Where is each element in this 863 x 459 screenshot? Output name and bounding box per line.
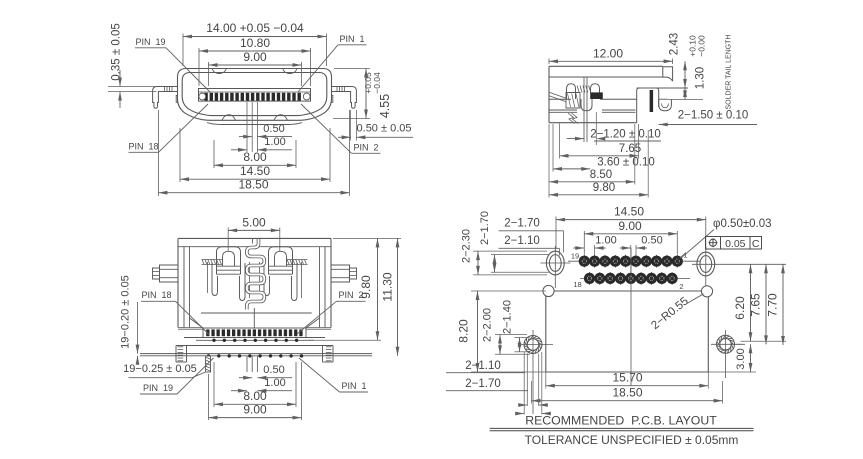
label PIN 19 with leader (front) (135, 37, 210, 92)
pcb: dimension 6.20 (rotated) (733, 264, 786, 341)
front view: contact tongue with 19-pin comb (199, 89, 311, 102)
dimension 2-1.50 +-0.10 (solder foot width) (659, 110, 757, 127)
dimension 10.80 (front tongue width) (199, 36, 311, 86)
svg-text:SOLDER TAIL LENGTH: SOLDER TAIL LENGTH (726, 35, 733, 110)
label PIN 1 with leader (front) (298, 34, 367, 92)
top view: left ear (153, 265, 179, 282)
front view: right mounting leg (332, 87, 357, 109)
svg-text:9.00: 9.00 (243, 50, 267, 64)
front view: bottom flange lip (207, 123, 302, 125)
label PIN 1 with leader (top view) (299, 358, 368, 392)
dimension 9.00 (front pin row span) (209, 50, 302, 86)
dimension 1.00 (top view pin pitch) (231, 377, 292, 393)
svg-text:3.00: 3.00 (735, 348, 747, 369)
dimension 9.00 (top view) (209, 362, 302, 420)
pcb: callout 2-1.70 (oval outer) (499, 218, 564, 253)
svg-text:2−2.30: 2−2.30 (461, 229, 473, 263)
top view: lower body narrowing (190, 313, 320, 328)
pcb: dimension 14.50 (oval slot spacing) (556, 205, 706, 251)
top view: upper pin tail row (9 dots) (196, 339, 314, 342)
dimension 12.00 (side body length) (549, 47, 673, 65)
side view: centre contact pin (584, 77, 587, 142)
svg-text:19: 19 (571, 252, 579, 261)
pcb: lower-right mounting pad (711, 330, 745, 378)
side view: hatched grip between posts (577, 86, 591, 93)
front view: top dimple right (283, 69, 297, 74)
svg-text:2−1.10: 2−1.10 (465, 360, 501, 372)
svg-text:14.00 +0.05 −0.04: 14.00 +0.05 −0.04 (206, 21, 304, 35)
side view: front insulator block with hatch (566, 93, 580, 109)
side view: dark contact band (591, 92, 603, 99)
front view: side lock tab right (331, 96, 333, 103)
top view: left latch spring (208, 247, 250, 301)
dimension 5.00 (latch spacing) (228, 216, 280, 252)
svg-text:8.50: 8.50 (590, 169, 612, 181)
pcb: dimension 2-1.40 (rotated) (502, 300, 531, 352)
svg-text:C: C (752, 238, 760, 250)
dimension 9.80 (side) (549, 124, 648, 198)
svg-text:4.55: 4.55 (378, 94, 392, 118)
title TOLERANCE UNSPECIFIED +-0.05mm (525, 433, 739, 447)
front view: top dimple left (212, 69, 226, 74)
svg-text:0.50: 0.50 (263, 123, 284, 135)
front view: side lock tab left (176, 96, 178, 103)
title separator rule (490, 428, 754, 430)
svg-text:14.50: 14.50 (240, 164, 270, 178)
svg-text:2.43: 2.43 (669, 33, 681, 55)
svg-text:1.00: 1.00 (264, 136, 285, 148)
svg-text:8.00: 8.00 (243, 389, 267, 403)
pcb: callout 2-1.10 (oval inner) (499, 235, 560, 256)
svg-text:2: 2 (679, 282, 683, 291)
dimension 0.50 +-0.05 (right leg width) (338, 110, 413, 141)
pcb: dimension 7.70 (rotated) (766, 264, 785, 345)
top view: front flange band (176, 338, 333, 363)
label PIN 2 with leader (front) (301, 104, 381, 153)
svg-text:14.50: 14.50 (614, 205, 644, 219)
svg-text:18.50: 18.50 (612, 386, 642, 400)
top view: centre meander contact (247, 239, 265, 329)
pcb: top pad row (pins 19..1) (568, 255, 700, 268)
svg-text:φ0.50±0.03: φ0.50±0.03 (713, 218, 772, 230)
dimension 19-0.25 +-0.05 (pin tail width) (123, 363, 205, 378)
top view: left hatched comb edge (202, 260, 223, 265)
svg-text:PIN 19: PIN 19 (135, 37, 165, 47)
svg-text:5.00: 5.00 (242, 216, 266, 230)
top view: front pin comb (203, 328, 306, 338)
svg-text:0.50: 0.50 (263, 364, 284, 376)
pcb: centre line (630, 248, 632, 386)
pcb: callout 2-R0.55 (649, 294, 703, 332)
svg-text:1.30: 1.30 (695, 67, 707, 89)
top view: centre pin tails (247, 356, 257, 372)
dimension 14.50 (front flange width) (180, 128, 330, 182)
dimension 18.50 (front overall width) (158, 110, 349, 196)
svg-text:9.00: 9.00 (243, 403, 267, 417)
svg-text:2−1.10: 2−1.10 (504, 235, 540, 247)
svg-text:PIN 18: PIN 18 (128, 142, 158, 152)
svg-text:9.80: 9.80 (593, 182, 615, 194)
pcb: position tolerance frame 0.05 C (706, 237, 762, 250)
svg-text:10.80: 10.80 (240, 36, 270, 50)
dimension 14.00 +0.05 -0.04 (front shell width) (183, 21, 327, 66)
dimension 2.43 (side, rotated) (669, 33, 687, 88)
svg-text:18.50: 18.50 (238, 178, 268, 192)
svg-text:PIN 19: PIN 19 (143, 383, 173, 393)
pcb: hole diameter callout φ0.50+-0.03 (681, 218, 772, 259)
dimension 11.30 (top view, rotated) (381, 238, 402, 355)
svg-text:−0.04: −0.04 (372, 72, 382, 94)
side view: contact bend (U shape) (581, 99, 592, 111)
dimension 0.35 +-0.05 (left leg thickness, rotated) (108, 23, 157, 108)
svg-text:11.30: 11.30 (381, 272, 395, 301)
svg-text:7.65: 7.65 (749, 293, 763, 317)
svg-text:−0.00: −0.00 (697, 35, 707, 57)
front view: inner shell profile (182, 73, 327, 116)
svg-text:0.50 ± 0.05: 0.50 ± 0.05 (357, 123, 412, 135)
svg-text:3.60 ± 0.10: 3.60 ± 0.10 (597, 157, 654, 169)
label PIN 19 with leader (top view) (140, 358, 214, 394)
title RECOMMENDED P.C.B. LAYOUT (525, 414, 717, 428)
label PIN 18 with leader (front) (128, 104, 208, 152)
side view: through-board mounting lug (637, 88, 659, 123)
svg-text:0.35 ± 0.05: 0.35 ± 0.05 (111, 23, 123, 80)
front view: outer shell profile (178, 69, 332, 121)
pcb: right oval slot (692, 246, 786, 290)
svg-text:2−1.70: 2−1.70 (465, 378, 501, 390)
dimension 3.60 +-0.10 (side) (553, 124, 655, 172)
svg-text:1.00: 1.00 (264, 377, 285, 389)
pcb: dimension 2-1.70 left (rotated) (479, 211, 549, 272)
svg-text:2−1.40: 2−1.40 (502, 300, 514, 334)
top view: lower pin tail row (10 dots) (207, 354, 303, 357)
dimension 8.00 (top view) (214, 362, 296, 407)
pcb: corner relief hole left (R0.55) (543, 285, 554, 296)
top view: right ear (331, 265, 357, 282)
top view: body outline (178, 238, 331, 329)
front view: bottom bump right (274, 115, 288, 121)
svg-text:9.00: 9.00 (618, 219, 642, 233)
dimension 9.80 (top view, rotated) (308, 238, 381, 340)
svg-text:15.70: 15.70 (612, 371, 642, 385)
svg-text:PIN 2: PIN 2 (353, 143, 378, 153)
svg-text:PIN 18: PIN 18 (141, 290, 171, 300)
front view: pin centre extension lines (247, 102, 257, 152)
top view: right latch spring (260, 247, 302, 301)
dimension 8.50 (side) (549, 124, 635, 185)
svg-text:12.00: 12.00 (593, 47, 623, 61)
side view: break lines (zigzag) (568, 113, 578, 124)
side view: solder tab pennant (663, 67, 673, 81)
side view: solder foot (659, 99, 672, 111)
pcb: dimension 2-2.00 (rotated) (482, 308, 531, 354)
pcb: dimension 15.70 (546, 371, 709, 389)
pcb: dimension 7.65 (rotated) (734, 264, 768, 344)
svg-text:2−1.50 ± 0.10: 2−1.50 ± 0.10 (678, 110, 749, 122)
pcb: dimension 0.50 (row offset) (620, 235, 663, 273)
dimension 0.50 (top view pin offset) (239, 364, 292, 380)
svg-text:RECOMMENDED P.C.B. LAYOUT: RECOMMENDED P.C.B. LAYOUT (525, 414, 717, 428)
pcb: dimension 3.00 (rotated) (708, 344, 756, 372)
pcb: pad row labels (571, 251, 688, 292)
svg-text:8.00: 8.00 (243, 150, 267, 164)
svg-text:19−0.25 ± 0.05: 19−0.25 ± 0.05 (123, 363, 197, 375)
svg-text:PIN 1: PIN 1 (339, 34, 364, 44)
pcb: callout 2-1.10 (pad hole) (446, 360, 525, 373)
pcb: dimension 18.50 (532, 381, 723, 404)
pcb: dimension 2-2.30 (rotated) (461, 229, 548, 275)
svg-text:2−1.70: 2−1.70 (479, 211, 491, 245)
svg-text:7.65: 7.65 (619, 143, 641, 155)
svg-text:0.50: 0.50 (641, 235, 662, 247)
top view: seating plane line (140, 354, 372, 356)
dimension 4.55 +0.05 -0.04 (front shell height, rotated) (333, 69, 392, 119)
pcb: connector outline rectangle (546, 291, 709, 372)
svg-text:6.20: 6.20 (733, 296, 747, 320)
label PIN 2 with leader (top view) (297, 290, 366, 334)
dimension 19-0.20 +-0.05 (contact thickness, rotated) (120, 275, 140, 365)
pcb: callout 2-1.70 (pad ring) (446, 378, 528, 391)
pcb: bottom pad row (pins 18..2) (580, 272, 690, 285)
label PIN 18 with leader (top view) (141, 290, 209, 335)
pcb: dimension 8.20 (rotated) (457, 291, 546, 372)
svg-text:2−1.70: 2−1.70 (504, 218, 540, 230)
pcb: corner relief hole right (R0.55) (701, 286, 712, 297)
svg-text:TOLERANCE UNSPECIFIED ± 0.05mm: TOLERANCE UNSPECIFIED ± 0.05mm (525, 433, 739, 447)
dimension 8.00 (front) (214, 140, 296, 168)
dimension 1.30 +0.10 -0.00 solder tail length (rotated) (668, 35, 733, 110)
dimension 0.50 (front pin pitch) (239, 123, 292, 139)
svg-text:8.20: 8.20 (457, 319, 471, 343)
svg-text:1.00: 1.00 (595, 235, 616, 247)
pcb: dimension 1.00 (pad pitch) (573, 235, 616, 256)
svg-text:7.70: 7.70 (766, 293, 780, 317)
dimension 1.00 (front pin pitch) (231, 136, 292, 152)
front view: bottom bump left (222, 115, 236, 121)
side view: shell body lines (549, 66, 688, 122)
front view: left mounting leg (153, 87, 178, 109)
side view: contact stack posts (567, 84, 600, 99)
pcb: left oval slot (541, 246, 571, 288)
svg-text:2−2.00: 2−2.00 (482, 308, 494, 342)
top view: hatched pin 19 tail (206, 356, 211, 372)
svg-text:0.05: 0.05 (725, 238, 746, 250)
pcb: pad width extension lines (515, 352, 551, 415)
pcb: dimension 9.00 (pad row span) (584, 219, 677, 255)
pcb: lower-left mounting pad (519, 330, 554, 414)
dimension 7.65 (side) (560, 124, 642, 159)
svg-text:19−0.20 ± 0.05: 19−0.20 ± 0.05 (120, 275, 132, 349)
top view: right hatched comb edge (287, 260, 308, 265)
svg-text:PIN 2: PIN 2 (338, 290, 363, 300)
svg-text:18: 18 (573, 280, 581, 289)
svg-text:PIN 1: PIN 1 (341, 381, 366, 391)
dimension 2-1.20 +-0.10 (side) (567, 112, 662, 145)
